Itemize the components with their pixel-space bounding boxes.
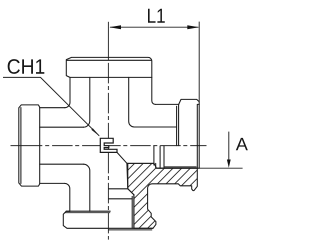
L1 dimension extension line right <box>198 22 200 102</box>
bottom cap top edge double <box>66 210 110 212</box>
right nut face lines below center (section) <box>197 146 199 169</box>
left port barrel top <box>40 107 65 109</box>
right port bore pilot line <box>127 162 154 164</box>
E-clip symbol (white filled) <box>100 138 117 152</box>
L1 right arrowhead <box>187 25 199 29</box>
leader arrowhead <box>91 128 100 136</box>
top hex outer-right line <box>152 77 156 104</box>
bottom port shoulder <box>109 189 134 195</box>
bottom hex outer-left line <box>65 183 70 211</box>
A extension line <box>199 167 242 169</box>
top cap chamfer line <box>67 59 152 61</box>
left port neck bottom <box>40 163 84 165</box>
bottom port bore wall <box>127 163 129 188</box>
top hex face-left line <box>83 77 89 127</box>
L1 dimension line <box>110 26 198 28</box>
bottom cap (left external half) <box>63 211 153 228</box>
L1 left arrowhead <box>109 25 121 29</box>
top port cap (nut crown) <box>66 57 152 77</box>
left nut chamfer line <box>20 108 22 184</box>
hatch lines <box>66 128 257 232</box>
right nut face chamfer line <box>197 104 199 145</box>
right port bore step chamfers <box>154 146 164 168</box>
bottom port thread walls <box>132 195 134 229</box>
L1 text <box>148 9 165 23</box>
right nut left face lines <box>177 104 179 145</box>
right port barrel top <box>134 104 179 127</box>
leader CH1 diagonal <box>3 77 99 135</box>
top hex outer-left line <box>65 77 70 107</box>
right port bore thread line <box>157 167 200 169</box>
CH1 text <box>8 59 45 74</box>
top hex face-right line <box>129 77 135 127</box>
bottom cap inner bottom line (section half) <box>109 229 153 231</box>
A text <box>236 138 248 150</box>
bottom port thread end line <box>109 198 133 200</box>
horizontal centerline <box>11 145 43 147</box>
right port thread crest line <box>164 166 197 168</box>
bottom hex face-left line <box>83 164 89 211</box>
A dimension arrow <box>228 132 230 160</box>
hatch region outline <box>127 163 197 228</box>
left port nut <box>19 105 40 186</box>
left port barrel bottom <box>40 182 65 184</box>
left port neck top <box>40 126 84 128</box>
leader continuation chamfer <box>117 152 127 163</box>
vertical centerline <box>107 22 109 56</box>
right port nut step <box>179 99 200 145</box>
